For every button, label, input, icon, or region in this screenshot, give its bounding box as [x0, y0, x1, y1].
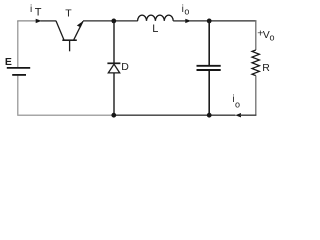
wire: capacitor vertical lower: [208, 71, 210, 115]
svg-text:R: R: [262, 62, 270, 74]
wire: top rail transistor to inductor: [83, 20, 138, 22]
wire: top rail coil to io arrow: [173, 20, 186, 22]
diode D cathode bar: [107, 62, 120, 64]
transistor T emitter slant with arrowhead: [74, 21, 83, 40]
wire: top rail from top-left corner to iT arrow: [17, 20, 36, 22]
wire: diode branch vertical lower: [113, 73, 115, 115]
current arrow iT on top wire: [36, 19, 42, 23]
svg-text:o: o: [235, 99, 240, 109]
wire: bottom rail left of diode node: [17, 114, 114, 116]
current arrow io on bottom wire (pointing left): [235, 113, 241, 117]
battery E top plate: [7, 67, 30, 69]
wire: top rail io arrow to top-right corner: [190, 20, 256, 22]
battery E bottom plate: [12, 74, 26, 76]
diode D triangle (anode, pointing up): [108, 64, 119, 73]
junction node: diode top: [111, 19, 116, 24]
transistor T base stub: [69, 41, 71, 52]
svg-text:i: i: [30, 4, 32, 15]
svg-text:T: T: [65, 7, 72, 19]
wire: top rail between iT arrow and transistor: [41, 20, 57, 22]
capacitor bottom plate: [197, 69, 221, 71]
wire: left rail upper segment: [17, 21, 19, 67]
wire: right rail lower (resistor to bottom-right corner): [255, 76, 257, 116]
capacitor top plate: [197, 65, 221, 67]
wire: bottom rail diode node to io arrow: [114, 114, 236, 116]
svg-text:T: T: [35, 7, 42, 19]
svg-text:L: L: [152, 23, 158, 35]
svg-text:D: D: [121, 61, 129, 73]
wire: right rail upper (top-right corner down to resistor): [255, 20, 257, 50]
wire: left rail lower segment: [17, 76, 19, 115]
junction node: capacitor bottom: [207, 113, 212, 118]
transistor T collector slant: [56, 21, 64, 40]
junction node: capacitor top: [207, 19, 212, 24]
wire: capacitor vertical upper: [208, 21, 210, 65]
transistor T base bar: [62, 39, 77, 41]
junction node: diode bottom: [111, 113, 116, 118]
svg-text:E: E: [5, 56, 12, 68]
current arrow io on top wire: [185, 19, 191, 23]
wire: diode branch vertical upper: [113, 21, 115, 63]
svg-text:o: o: [184, 6, 189, 16]
wire: bottom rail io arrow to bottom-right corner: [240, 114, 256, 116]
resistor R zigzag: [252, 50, 259, 76]
inductor L coil (4 humps): [138, 15, 174, 21]
svg-text:o: o: [270, 32, 275, 42]
